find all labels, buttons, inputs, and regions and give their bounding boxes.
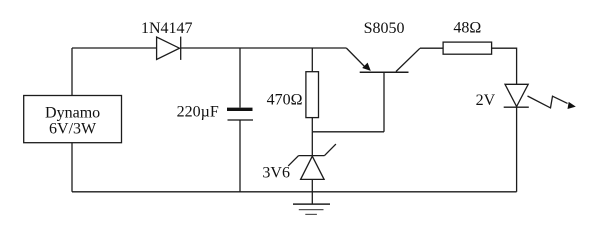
wire bottom rail — [72, 191, 517, 193]
svg-text:2V: 2V — [476, 92, 496, 109]
svg-text:S8050: S8050 — [364, 20, 405, 37]
wire zener bottom lead to ground — [311, 179, 313, 204]
ground symbol — [293, 204, 330, 214]
dynamo box — [24, 96, 122, 143]
zener diode D3 symbol — [288, 144, 336, 179]
svg-text:Dynamo: Dynamo — [45, 104, 100, 121]
wire LED cathode lead — [516, 107, 518, 192]
LED D2 symbol — [504, 84, 529, 107]
transistor Q1 symbol — [346, 48, 420, 72]
capacitor C1 symbol — [227, 109, 253, 120]
svg-text:220µF: 220µF — [177, 104, 219, 121]
svg-text:48Ω: 48Ω — [453, 20, 481, 37]
wire dynamo top lead — [71, 48, 73, 96]
dynamo label "Dynamo 6V/3W" — [45, 104, 100, 137]
svg-text:1N4147: 1N4147 — [141, 20, 193, 37]
diode D1 symbol — [157, 37, 181, 60]
wire capacitor bottom lead — [239, 121, 241, 192]
svg-text:470Ω: 470Ω — [267, 92, 303, 109]
wire node to transistor base (horizontal) — [312, 131, 384, 133]
wire resistor R1 top lead — [311, 48, 313, 72]
wire resistor R1 bottom lead to node — [311, 118, 313, 132]
wire capacitor top lead — [239, 48, 241, 108]
wire transistor emitter to resistor R2 — [420, 47, 443, 49]
wire top rail left (dynamo + to diode anode) — [72, 47, 157, 49]
wire dynamo bottom lead — [71, 143, 73, 192]
wire transistor base vertical — [383, 72, 385, 132]
wire zener top lead — [311, 132, 313, 156]
wire resistor R2 to LED corner — [492, 48, 517, 84]
resistor R1 body (470 ohm) — [306, 72, 319, 118]
resistor R2 body (48 ohm) — [443, 42, 492, 54]
LED D2 light ray arrow — [528, 96, 576, 109]
wire top rail right (diode cathode to transistor collector corner) — [181, 47, 347, 49]
svg-text:6V/3W: 6V/3W — [49, 121, 97, 138]
transistor Q1 collector arrowhead — [362, 63, 371, 71]
svg-text:3V6: 3V6 — [262, 164, 290, 181]
